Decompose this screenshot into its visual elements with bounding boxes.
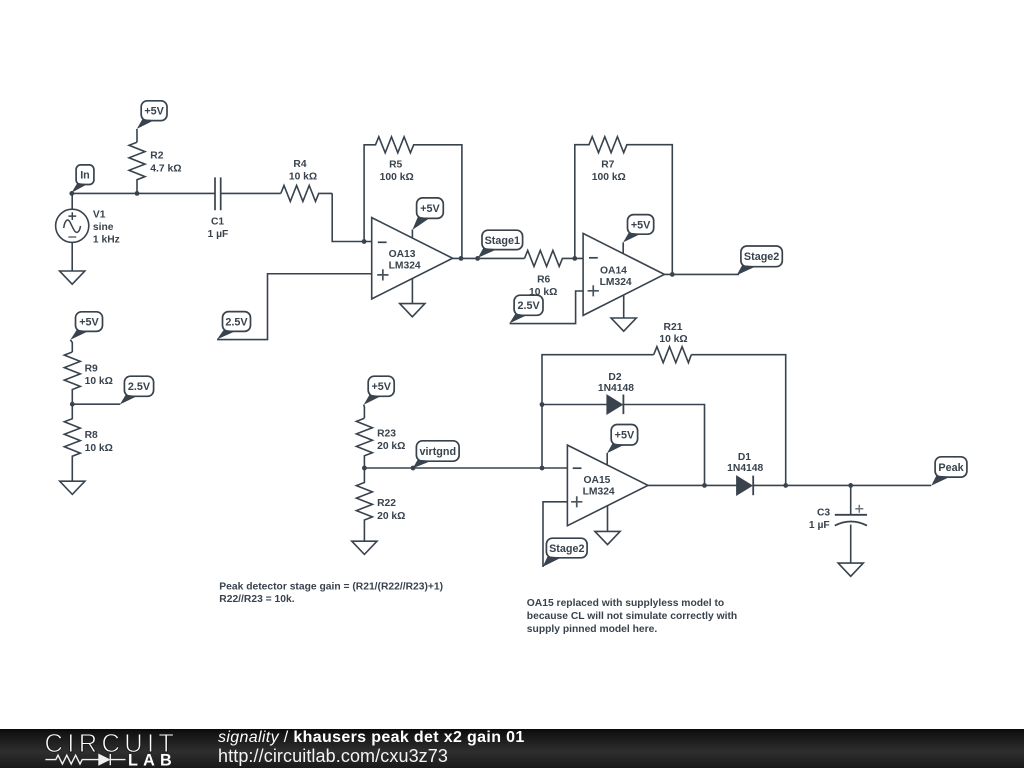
svg-text:because CL will not simulate c: because CL will not simulate correctly w… (527, 611, 737, 622)
svg-text:+5V: +5V (79, 316, 99, 328)
svg-text:LM324: LM324 (600, 277, 632, 288)
svg-text:1 µF: 1 µF (207, 229, 228, 240)
svg-text:+5V: +5V (144, 106, 164, 118)
svg-text:OA15 replaced with supplyless: OA15 replaced with supplyless model to (527, 598, 724, 609)
resistor R4 (281, 185, 332, 201)
wire: OA13 +5V supply stub (411, 230, 413, 239)
node: R21 return dot (783, 483, 788, 488)
label Peak (931, 457, 967, 486)
svg-text:1N4148: 1N4148 (727, 463, 763, 474)
svg-text:4.7 kΩ: 4.7 kΩ (150, 163, 181, 174)
svg-text:+5V: +5V (420, 203, 440, 215)
svg-text:R4: R4 (293, 159, 306, 170)
svg-text:C3: C3 (817, 508, 830, 519)
svg-text:R21: R21 (664, 322, 683, 333)
svg-text:2.5V: 2.5V (128, 381, 151, 393)
capacitor C3 (polarized) (835, 485, 867, 563)
node: divider junction dot (70, 402, 75, 407)
svg-text:D2: D2 (608, 372, 621, 383)
capacitor C1 (215, 177, 281, 210)
node: D2 tap dot on left vertical (540, 402, 545, 407)
wire: divider node to 2.5V label (72, 403, 120, 405)
node: virtgnd label dot (411, 466, 416, 471)
svg-text:OA13: OA13 (389, 249, 416, 260)
svg-text:1N4148: 1N4148 (598, 383, 634, 394)
svg-text:10 kΩ: 10 kΩ (529, 287, 557, 298)
label 2.5V (OA13 +input) (217, 312, 251, 340)
resistor R8 (64, 404, 80, 481)
wire: R4 to OA13 inverting input (332, 193, 372, 241)
power label +5V (OA13) (412, 198, 443, 230)
power label +5V (OA15) (607, 425, 638, 454)
node: OA14 output feedback dot (670, 272, 675, 277)
wire: In node row to C1 (72, 192, 215, 194)
wire: OA14 +5V supply stub (622, 242, 624, 254)
node: OA13 output feedback dot (459, 256, 464, 261)
wire: OA13 ground stub (411, 279, 413, 304)
label virtgnd (413, 441, 459, 469)
svg-text:Peak detector stage gain = (R2: Peak detector stage gain = (R21/(R22//R2… (219, 581, 443, 592)
svg-text:In: In (80, 170, 90, 182)
node: D2 return dot (702, 483, 707, 488)
voltage source V1 (56, 193, 89, 271)
svg-text:R9: R9 (85, 364, 98, 375)
svg-text:100 kΩ: 100 kΩ (380, 172, 414, 183)
wire: OA14 non-inverting input from 2.5V (510, 291, 583, 324)
ground (OA15) (595, 531, 620, 544)
ground (OA14) (611, 318, 636, 331)
svg-text:10 kΩ: 10 kΩ (289, 172, 317, 183)
node: OA13 inverting junction dot (362, 239, 367, 244)
svg-text:sine: sine (93, 222, 114, 233)
svg-text:R22//R23 = 10k.: R22//R23 = 10k. (219, 594, 294, 605)
svg-text:R22: R22 (377, 498, 396, 509)
svg-text:LM324: LM324 (389, 261, 421, 272)
ground (R8) (60, 481, 85, 494)
wire: OA13 non-inverting input from 2.5V (217, 274, 372, 340)
label 2.5V (OA14 +input) (509, 295, 543, 323)
power label +5V (OA14) (623, 215, 654, 243)
op-amp OA14 (583, 233, 664, 315)
op-amp OA15 (567, 445, 648, 526)
svg-text:Peak: Peak (938, 462, 964, 474)
svg-text:10 kΩ: 10 kΩ (85, 376, 113, 387)
node: OA14 inverting junction dot (572, 256, 577, 261)
wire: OA15 non-inverting input to Stage2 (543, 502, 567, 567)
svg-text:1 kHz: 1 kHz (93, 235, 120, 246)
svg-text:R6: R6 (537, 274, 550, 285)
node: virtgnd node dot (362, 466, 367, 471)
power label +5V (R2) (137, 101, 167, 129)
svg-text:20 kΩ: 20 kΩ (377, 511, 405, 522)
op-amp OA13 (372, 218, 453, 299)
node: OA15 inverting junction dot (540, 466, 545, 471)
svg-text:C1: C1 (211, 217, 224, 228)
svg-text:+5V: +5V (631, 219, 651, 231)
resistor R5 feedback (364, 137, 462, 259)
svg-text:LAB: LAB (128, 752, 177, 768)
svg-text:100 kΩ: 100 kΩ (592, 172, 626, 183)
svg-text:OA15: OA15 (584, 475, 611, 486)
wire: virtgnd row to OA15 inverting input (364, 467, 567, 469)
wire: OA14 output row to Stage2 (664, 273, 739, 275)
resistor R7 feedback (575, 137, 673, 275)
ground (C3) (838, 563, 863, 576)
svg-text:supply pinned model here.: supply pinned model here. (527, 624, 658, 635)
node: Stage1 tap dot (475, 256, 480, 261)
svg-text:R2: R2 (150, 151, 163, 162)
resistor R9 (64, 340, 80, 404)
ground (R22) (352, 541, 377, 554)
resistor R22 (356, 468, 372, 541)
svg-text:OA14: OA14 (600, 265, 627, 276)
label Stage2 (OA15 +input) (543, 538, 588, 567)
label Stage1 (478, 230, 523, 258)
resistor R6 (525, 250, 584, 266)
node In: junction dot (69, 191, 74, 196)
wire: D2 branch (542, 405, 705, 486)
svg-text:+5V: +5V (615, 430, 635, 442)
svg-text:10 kΩ: 10 kΩ (659, 334, 687, 345)
label 2.5V (divider) (120, 376, 154, 404)
label Stage2 (OA14 output) (737, 246, 783, 275)
svg-text:20 kΩ: 20 kΩ (377, 441, 405, 452)
svg-text:1 µF: 1 µF (809, 520, 830, 531)
svg-text:LM324: LM324 (583, 487, 615, 498)
svg-text:virtgnd: virtgnd (420, 446, 457, 458)
diode D1 (737, 476, 753, 496)
svg-text:R8: R8 (85, 430, 98, 441)
power label +5V (R9) (70, 312, 102, 340)
svg-text:Stage2: Stage2 (549, 543, 584, 555)
svg-text:2.5V: 2.5V (517, 300, 540, 312)
power label +5V (R23) (364, 376, 395, 405)
bottom title bar (0, 729, 1024, 768)
wire: OA14 ground stub (623, 295, 625, 318)
label In (72, 165, 94, 193)
CircuitLab logo (40, 729, 190, 768)
diode D2 (607, 395, 623, 415)
svg-text:Stage1: Stage1 (485, 235, 520, 247)
wire: OA13 output row to R6 (453, 257, 525, 259)
resistor R23 (356, 405, 372, 468)
node: C3 tap dot (848, 483, 853, 488)
svg-text:V1: V1 (93, 210, 106, 221)
svg-text:2.5V: 2.5V (225, 316, 248, 328)
resistor R21 (654, 347, 692, 363)
svg-text:10 kΩ: 10 kΩ (85, 443, 113, 454)
wire: OA15 ground stub (607, 506, 609, 532)
resistor R2 (129, 129, 145, 194)
ground (OA13) (400, 304, 425, 317)
svg-text:D1: D1 (738, 452, 751, 463)
wire: OA15 +5V supply stub (606, 453, 608, 465)
wire: OA15 output row (648, 484, 931, 486)
ground (V1) (60, 271, 85, 284)
svg-text:Stage2: Stage2 (744, 251, 779, 263)
svg-text:+5V: +5V (371, 381, 391, 393)
svg-text:R7: R7 (601, 160, 614, 171)
wire: R21 feedback loop (542, 355, 786, 486)
svg-text:R23: R23 (377, 429, 396, 440)
svg-text:R5: R5 (389, 160, 402, 171)
node: R2 junction dot (135, 191, 140, 196)
